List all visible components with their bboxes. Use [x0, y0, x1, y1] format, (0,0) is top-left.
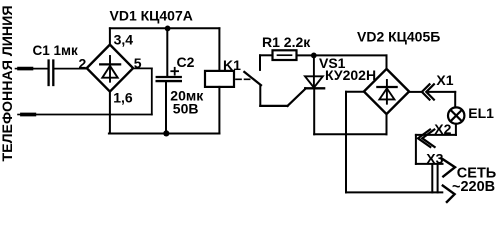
wire: contact to gate horizontal [260, 105, 287, 107]
wire: X1 to lamp corner [429, 91, 455, 93]
wire: R1 right lead [297, 54, 314, 56]
capacitor C2 [157, 77, 181, 81]
node: junction dot bottom rail [163, 130, 169, 136]
wire: VD1 bottom lead [109, 92, 111, 134]
wire: gate diagonal lead [288, 88, 306, 106]
wire: VS1 cathode to VD2 bottom [314, 133, 386, 135]
relay contact K1.1 fixed lead [259, 55, 261, 70]
wire: VD1 top lead [109, 28, 111, 44]
relay coil K1 [205, 71, 234, 87]
wire: lamp to X2 [416, 134, 456, 136]
wire: top positive rail [110, 27, 219, 29]
wire: X2 drop to X3 [415, 135, 417, 164]
terminal: bottom telephone line lead-in [18, 114, 34, 116]
svg-text:C2: C2 [177, 54, 195, 70]
wire: K1 top lead [218, 28, 220, 71]
svg-text:EL1: EL1 [468, 105, 494, 121]
wire: VD2 left lead [346, 91, 364, 93]
diode symbol inside VD1 [100, 56, 120, 82]
wire: C2 bottom lead [165, 82, 167, 133]
svg-text:X3: X3 [426, 150, 443, 166]
svg-text:1,6: 1,6 [113, 89, 133, 105]
wire: VD1 pin 5 stub [133, 67, 152, 69]
wire: VD2 top lead [386, 55, 388, 69]
relay contact K1.1 arm [244, 72, 261, 85]
svg-text:VD1 КЦ407А: VD1 КЦ407А [110, 8, 193, 24]
wire: to X3 upper pole [416, 163, 443, 165]
connector X3 lower arrow [443, 186, 455, 202]
wire: left drop to bottom mains rail [345, 92, 347, 193]
capacitor C1 [49, 61, 54, 86]
svg-text:C1 1мк: C1 1мк [33, 43, 79, 58]
polarity plus sign of C2 [171, 68, 178, 75]
wire: lamp bottom lead [455, 124, 457, 135]
svg-text:VD2 КЦ405Б: VD2 КЦ405Б [357, 28, 440, 44]
svg-text:2: 2 [79, 55, 87, 71]
svg-text:X1: X1 [436, 72, 453, 88]
svg-text:КУ202Н: КУ202Н [325, 67, 376, 83]
svg-text:~220В: ~220В [452, 179, 495, 195]
node: junction dot at VS1 anode [311, 53, 317, 59]
svg-text:K1: K1 [223, 57, 241, 73]
dashed mechanical link K1 to contact [236, 78, 252, 80]
power mark inside R1 [278, 54, 292, 56]
wire: bottom mains rail [346, 191, 442, 193]
svg-text:50В: 50В [173, 100, 199, 116]
connector X3 upper arrow [442, 158, 455, 176]
svg-text:3,4: 3,4 [114, 32, 134, 48]
svg-text:ТЕЛЕФОННАЯ ЛИНИЯ: ТЕЛЕФОННАЯ ЛИНИЯ [0, 6, 15, 162]
wire: R1 left lead [260, 54, 273, 56]
svg-text:R1 2.2к: R1 2.2к [262, 34, 311, 50]
node: junction dot on top rail [165, 26, 171, 32]
connector X1 chevrons [422, 84, 434, 99]
lamp EL1 [448, 107, 464, 123]
terminal: top telephone line lead-in [16, 68, 32, 70]
wire: anode rail to VD2 top [314, 54, 387, 56]
wire: VD2 bottom lead [386, 114, 388, 134]
wire: VD2 right lead to X1 [409, 91, 422, 93]
wire: contact arm down [259, 85, 261, 106]
wire: top line terminal to C1 [33, 68, 48, 70]
bridge rectifier VD1 diamond [87, 45, 133, 92]
resistor R1 [273, 50, 297, 60]
connector X3 separation bars [432, 165, 437, 193]
wire: K1 bottom lead [218, 87, 220, 134]
wire: bottom negative rail [109, 133, 219, 135]
wire: bottom line terminal to VD1 pin 5 riser [34, 114, 152, 116]
wire: C2 top lead [166, 28, 168, 76]
svg-text:X2: X2 [434, 121, 451, 137]
wire: VS1 cathode lead down [313, 88, 315, 134]
wire: drop to lamp [454, 92, 456, 108]
connector X2 chevrons [418, 130, 435, 148]
thyristor VS1 [305, 55, 324, 88]
wire: riser to VD1 pin 5 [151, 68, 153, 114]
wire: C1 to VD1 pin 2 [54, 68, 86, 70]
bridge rectifier VD2 diamond [364, 69, 409, 114]
diode symbol inside VD2 [377, 80, 396, 104]
